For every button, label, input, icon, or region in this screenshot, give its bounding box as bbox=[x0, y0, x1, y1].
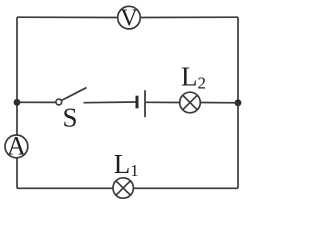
wire right upper bbox=[237, 17, 239, 103]
wire left top bbox=[16, 17, 18, 102]
svg-text:S: S bbox=[63, 103, 78, 133]
svg-text:V: V bbox=[120, 6, 138, 32]
wire right lower bbox=[237, 103, 239, 189]
voltmeter V bbox=[118, 6, 141, 32]
wire battery to lamp bbox=[146, 101, 180, 103]
wire switch to battery bbox=[84, 101, 136, 104]
wire top-left segment bbox=[17, 16, 118, 18]
wire top-right segment bbox=[140, 16, 238, 18]
wire junction to switch bbox=[17, 101, 56, 103]
node junction left bbox=[14, 99, 21, 106]
lamp L2 bbox=[180, 92, 201, 113]
svg-text:L1: L1 bbox=[114, 149, 139, 180]
battery negative plate (short thick) bbox=[136, 96, 139, 109]
wire bottom-left segment bbox=[17, 187, 113, 189]
svg-text:A: A bbox=[7, 132, 26, 161]
lamp L1 bbox=[113, 178, 133, 198]
wire bottom-right segment bbox=[133, 187, 238, 189]
battery positive plate (tall thin) bbox=[144, 90, 146, 117]
switch S pivot bbox=[56, 99, 62, 105]
wire left upper-mid bbox=[16, 102, 18, 135]
switch S lever bbox=[61, 88, 86, 101]
wire left lower bbox=[16, 158, 18, 189]
ammeter A bbox=[5, 132, 28, 161]
node junction right bbox=[235, 99, 242, 106]
svg-text:L2: L2 bbox=[181, 61, 206, 92]
wire lamp to right junction bbox=[200, 102, 238, 104]
